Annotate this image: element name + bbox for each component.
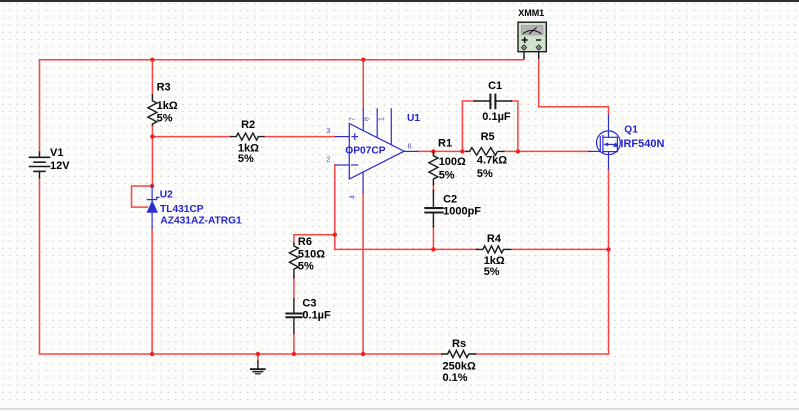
svg-text:0.1%: 0.1% [443, 372, 468, 384]
svg-text:5%: 5% [298, 260, 314, 272]
svg-text:C2: C2 [443, 194, 457, 206]
svg-text:IRF540N: IRF540N [620, 138, 664, 150]
svg-text:7: 7 [350, 117, 357, 121]
svg-text:0.1µF: 0.1µF [302, 310, 331, 322]
svg-text:Rs: Rs [452, 338, 466, 350]
svg-text:R6: R6 [298, 236, 312, 248]
svg-text:250kΩ: 250kΩ [443, 361, 476, 373]
svg-text:5%: 5% [157, 113, 173, 125]
svg-text:100Ω: 100Ω [439, 156, 466, 168]
svg-text:510Ω: 510Ω [298, 249, 325, 261]
svg-text:OP07CP: OP07CP [345, 146, 385, 157]
svg-text:TL431CP: TL431CP [160, 204, 204, 215]
svg-text:1kΩ: 1kΩ [157, 100, 178, 112]
svg-text:R4: R4 [487, 233, 502, 245]
svg-text:0.1µF: 0.1µF [482, 111, 511, 123]
svg-text:R3: R3 [157, 82, 171, 94]
svg-text:2: 2 [327, 156, 331, 163]
svg-text:5%: 5% [439, 169, 455, 181]
svg-text:8: 8 [364, 117, 371, 121]
svg-text:1000pF: 1000pF [443, 205, 481, 217]
svg-text:1: 1 [379, 117, 386, 121]
svg-text:R1: R1 [438, 138, 452, 150]
svg-text:R5: R5 [481, 131, 495, 143]
svg-text:U1: U1 [407, 113, 420, 124]
svg-text:12V: 12V [50, 160, 70, 172]
svg-text:5%: 5% [477, 168, 493, 180]
svg-text:3: 3 [327, 128, 331, 135]
svg-text:C3: C3 [302, 298, 316, 310]
svg-text:5%: 5% [484, 266, 500, 278]
svg-text:Q1: Q1 [624, 125, 638, 136]
svg-text:AZ431AZ-ATRG1: AZ431AZ-ATRG1 [160, 215, 242, 226]
svg-text:6: 6 [408, 143, 412, 150]
svg-text:5%: 5% [238, 153, 254, 165]
svg-text:4.7kΩ: 4.7kΩ [477, 155, 507, 167]
svg-text:XMM1: XMM1 [518, 8, 544, 18]
svg-text:R2: R2 [241, 119, 255, 131]
svg-text:V1: V1 [50, 147, 63, 159]
svg-text:C1: C1 [488, 80, 502, 92]
svg-text:4: 4 [350, 195, 357, 199]
svg-text:U2: U2 [160, 190, 173, 201]
